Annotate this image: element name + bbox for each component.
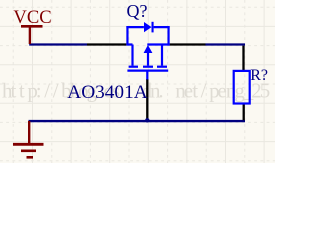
body diode of Q? [144,22,154,33]
svg-text:AO3401A: AO3401A [67,82,147,103]
drain pin vertical (left) [126,26,128,46]
wire resistor top lead (black) [242,46,244,71]
wire resistor bottom lead (black) [243,103,245,120]
watermark text [2,79,270,103]
body link horizontal [147,43,169,45]
resistor R? body [234,71,250,104]
gate plate [127,69,168,71]
sheet background [0,0,275,163]
gate wire (black vertical) [146,79,148,120]
body arrow of Q? [144,45,153,53]
bottom wire (gnd net) [29,120,246,122]
svg-text:Q?: Q? [127,1,148,21]
gate stem (blue part) [146,71,148,80]
channel cap left [129,66,138,68]
junction dot [145,118,149,122]
wire segment (black part, left of transistor) [87,43,126,45]
body arrow stem [147,52,149,66]
body-diode top rail [126,26,169,28]
wire to resistor (navy part) [206,43,246,45]
ground symbol [13,121,44,157]
channel stub left [127,45,132,66]
wire VCC to MOSFET (navy part) [29,43,87,45]
transistor Q? (P-MOSFET) [126,26,169,80]
channel stub right [161,45,163,66]
channel cap middle [143,66,153,68]
source pin vertical (right) [167,26,169,46]
svg-text:R?: R? [250,67,268,84]
wire segment (black part, right of transistor) [170,43,206,45]
VCC bar symbol [21,26,43,44]
channel cap right [157,66,167,68]
